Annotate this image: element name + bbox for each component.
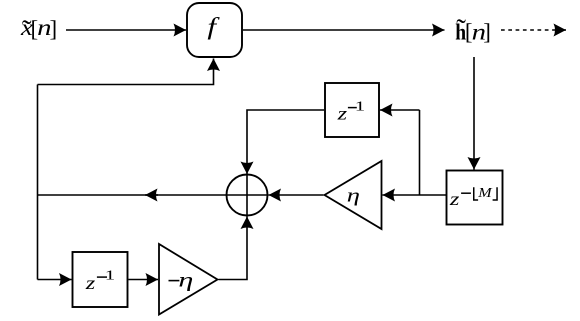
svg-text:1: 1 xyxy=(105,267,115,283)
svg-text:η: η xyxy=(178,269,193,291)
svg-text:]: ] xyxy=(483,20,491,45)
svg-text:M: M xyxy=(477,186,493,201)
svg-text:η: η xyxy=(347,184,360,205)
svg-text:z: z xyxy=(449,189,460,209)
svg-text:]: ] xyxy=(50,16,58,41)
svg-text:z: z xyxy=(336,104,347,124)
svg-text:z: z xyxy=(85,273,96,293)
svg-text:1: 1 xyxy=(355,98,365,114)
